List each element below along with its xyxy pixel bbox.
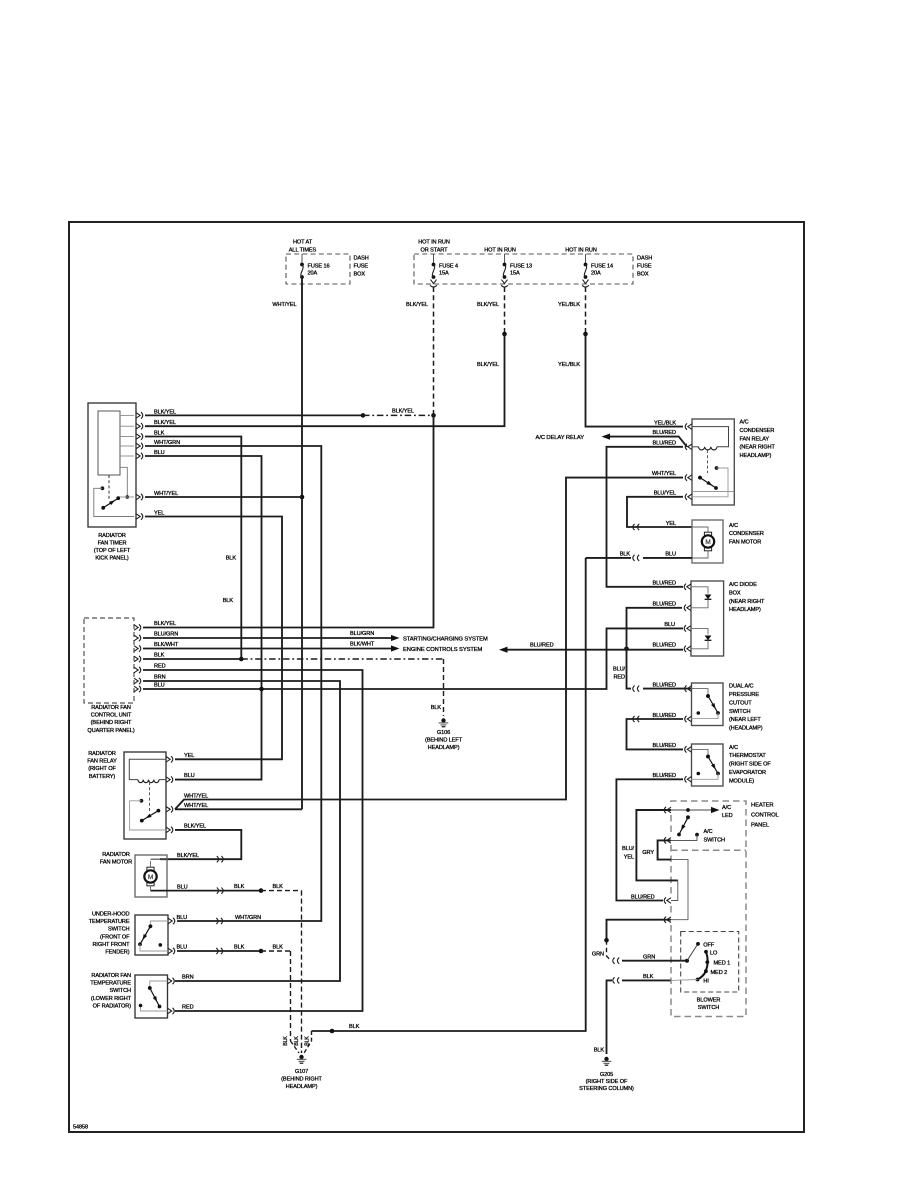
svg-text:BLU/GRN: BLU/GRN bbox=[154, 632, 178, 638]
svg-text:GRN: GRN bbox=[592, 952, 604, 958]
svg-text:BLU: BLU bbox=[184, 773, 195, 779]
svg-text:KICK PANEL): KICK PANEL) bbox=[95, 556, 129, 562]
A/C relay coil bbox=[692, 446, 699, 448]
svg-text:BLK: BLK bbox=[349, 1024, 360, 1030]
svg-text:FUSE 13: FUSE 13 bbox=[510, 264, 532, 270]
svg-text:MED 2: MED 2 bbox=[711, 970, 728, 976]
svg-text:FUSE: FUSE bbox=[637, 264, 652, 270]
svg-text:RADIATOR: RADIATOR bbox=[98, 533, 126, 539]
svg-text:STEERING COLUMN): STEERING COLUMN) bbox=[579, 1086, 634, 1092]
svg-text:BLK/YEL: BLK/YEL bbox=[477, 362, 499, 368]
svg-text:TEMPERATURE: TEMPERATURE bbox=[89, 919, 130, 925]
svg-text:WHT/YEL: WHT/YEL bbox=[272, 302, 296, 308]
fuse 16 20A bbox=[301, 254, 303, 263]
svg-text:G106: G106 bbox=[437, 730, 450, 736]
svg-text:BLU/RED: BLU/RED bbox=[652, 643, 676, 649]
svg-text:15A: 15A bbox=[510, 271, 520, 277]
svg-text:PRESSURE: PRESSURE bbox=[729, 692, 759, 698]
svg-text:(FRONT OF: (FRONT OF bbox=[100, 934, 130, 940]
radiator fan relay box bbox=[124, 752, 166, 839]
wire BLK/BLU motor ground lead bbox=[586, 557, 631, 559]
dash fuse box 1 (fuse 16) bbox=[286, 254, 350, 284]
svg-text:20A: 20A bbox=[591, 271, 601, 277]
svg-text:BLU/RED: BLU/RED bbox=[652, 430, 676, 436]
timer internal switch bbox=[108, 475, 110, 500]
svg-text:(RIGHT OF: (RIGHT OF bbox=[88, 766, 116, 772]
svg-text:BLU: BLU bbox=[177, 884, 188, 890]
control unit pins bbox=[134, 625, 138, 631]
svg-text:M: M bbox=[148, 874, 153, 881]
wire WHT/YEL from fuse 16 down to radiator fan relay bbox=[301, 277, 303, 809]
svg-text:FAN RELAY: FAN RELAY bbox=[740, 436, 770, 442]
dual A/C pressure cutout switch box bbox=[692, 683, 724, 726]
svg-text:(BEHIND LEFT: (BEHIND LEFT bbox=[425, 738, 463, 744]
svg-text:(BEHIND RIGHT: (BEHIND RIGHT bbox=[281, 1077, 322, 1083]
svg-text:FAN MOTOR: FAN MOTOR bbox=[100, 860, 132, 866]
svg-text:RADIATOR: RADIATOR bbox=[102, 852, 130, 858]
A/C switch bbox=[686, 815, 690, 819]
svg-text:SWITCH: SWITCH bbox=[110, 988, 132, 994]
A/C LED bbox=[671, 809, 711, 811]
fuse 13 15A bbox=[504, 254, 506, 263]
svg-text:HOT IN RUN: HOT IN RUN bbox=[565, 248, 597, 254]
svg-text:BLU/RED: BLU/RED bbox=[652, 602, 676, 608]
svg-text:BLK/YEL: BLK/YEL bbox=[392, 408, 414, 414]
svg-text:RADIATOR: RADIATOR bbox=[88, 751, 116, 757]
svg-text:HEADLAMP): HEADLAMP) bbox=[729, 607, 761, 613]
wire BLK/WHT to engine controls system bbox=[143, 648, 391, 650]
svg-text:BLU/RED: BLU/RED bbox=[652, 682, 676, 688]
svg-text:BOX: BOX bbox=[729, 590, 741, 596]
wire BLK row with ground G106 bbox=[143, 658, 241, 660]
wire WHT/YEL row2 up to fuse16 column bbox=[175, 808, 302, 810]
wire BRN row bbox=[143, 681, 340, 981]
pressure switch internals bbox=[692, 689, 709, 696]
svg-text:BLK: BLK bbox=[594, 1047, 605, 1053]
svg-text:M: M bbox=[705, 539, 710, 546]
timer pins bbox=[136, 413, 140, 419]
svg-text:BLK: BLK bbox=[273, 884, 284, 890]
svg-text:MODULE): MODULE) bbox=[729, 778, 754, 784]
wire timer WHT/YEL row 6 bbox=[145, 496, 302, 498]
svg-text:BLK: BLK bbox=[273, 945, 284, 951]
wire timer BLU row 5 bbox=[145, 456, 262, 780]
wire BLU/RED coil to diode box bbox=[607, 447, 684, 587]
svg-text:WHT/YEL: WHT/YEL bbox=[184, 803, 208, 809]
splice dot on WHT/YEL at timer row bbox=[300, 495, 305, 500]
svg-text:(NEAR LEFT: (NEAR LEFT bbox=[729, 717, 761, 723]
A/C delay relay arrow bbox=[610, 437, 687, 447]
svg-text:BLK/YEL: BLK/YEL bbox=[477, 302, 499, 308]
wire BLU/YEL from A/C LED bbox=[636, 810, 677, 880]
svg-text:ENGINE CONTROLS SYSTEM: ENGINE CONTROLS SYSTEM bbox=[403, 647, 483, 653]
svg-text:A/C DELAY RELAY: A/C DELAY RELAY bbox=[536, 435, 585, 441]
svg-text:DASH: DASH bbox=[354, 256, 369, 262]
ground G107 dashed drops bbox=[291, 1041, 300, 1053]
motor BLK/YEL lead bbox=[151, 858, 168, 860]
fuse 14 20A bbox=[585, 254, 587, 263]
A/C thermostat box bbox=[692, 744, 724, 786]
svg-text:BLOWER: BLOWER bbox=[697, 997, 721, 1003]
svg-text:FENDER): FENDER) bbox=[105, 950, 129, 956]
radiator fan control unit box bbox=[84, 618, 134, 703]
svg-text:BLK: BLK bbox=[234, 945, 245, 951]
svg-text:RED: RED bbox=[613, 675, 625, 681]
wire BLU/BLK row to G107 bbox=[177, 950, 261, 952]
svg-text:UNDER-HOOD: UNDER-HOOD bbox=[92, 912, 130, 918]
svg-text:BLK/YEL: BLK/YEL bbox=[154, 420, 176, 426]
svg-text:CONDENSER: CONDENSER bbox=[740, 428, 775, 434]
svg-text:WHT/YEL: WHT/YEL bbox=[652, 471, 676, 477]
svg-text:(RIGHT SIDE OF: (RIGHT SIDE OF bbox=[586, 1079, 628, 1085]
blower switch box bbox=[681, 932, 739, 993]
svg-text:BLU: BLU bbox=[177, 915, 188, 921]
svg-text:LO: LO bbox=[710, 950, 718, 956]
svg-text:BLK: BLK bbox=[431, 705, 442, 711]
svg-text:BLK/WHT: BLK/WHT bbox=[154, 642, 179, 648]
motor BLU/BLK lead to ground run bbox=[151, 890, 262, 892]
svg-text:HEADLAMP): HEADLAMP) bbox=[286, 1084, 318, 1090]
wire BLU/GRN to starting/charging system bbox=[143, 637, 391, 639]
svg-text:FAN RELAY: FAN RELAY bbox=[87, 759, 117, 765]
wire YEL/BLK from fuse 14 bbox=[585, 287, 587, 334]
svg-text:FUSE 16: FUSE 16 bbox=[308, 264, 330, 270]
ground G205 bbox=[604, 1057, 608, 1061]
svg-text:(LOWER RIGHT: (LOWER RIGHT bbox=[91, 996, 132, 1002]
svg-text:(NEAR RIGHT: (NEAR RIGHT bbox=[729, 599, 765, 605]
wire timer WHT/GRN row 4 bbox=[145, 446, 321, 921]
svg-text:SWITCH: SWITCH bbox=[108, 927, 130, 933]
thermostat internals bbox=[692, 749, 709, 756]
svg-text:FUSE: FUSE bbox=[354, 264, 369, 270]
diode 1 bbox=[691, 587, 708, 594]
svg-text:BLU/RED: BLU/RED bbox=[652, 713, 676, 719]
svg-text:A/C: A/C bbox=[729, 745, 738, 751]
svg-text:TEMPERATURE: TEMPERATURE bbox=[90, 981, 131, 987]
svg-text:BLK/WHT: BLK/WHT bbox=[350, 642, 375, 648]
svg-text:BRN: BRN bbox=[182, 975, 194, 981]
relay coil bbox=[129, 759, 166, 779]
dash fuse box 2 (fuses 4, 13, 14) bbox=[414, 254, 633, 284]
svg-text:BLK: BLK bbox=[643, 974, 654, 980]
radiator fan motor box bbox=[135, 855, 167, 897]
radiator fan timer box bbox=[88, 403, 136, 527]
blower switch contacts bbox=[685, 959, 689, 963]
wire BLK/YEL from fuse 4 (dashed) bbox=[433, 287, 435, 415]
svg-text:CONDENSER: CONDENSER bbox=[729, 531, 764, 537]
svg-text:15A: 15A bbox=[439, 271, 449, 277]
svg-text:YEL/BLK: YEL/BLK bbox=[654, 420, 676, 426]
svg-text:EVAPORATOR: EVAPORATOR bbox=[729, 770, 766, 776]
svg-text:BLK/YEL: BLK/YEL bbox=[177, 853, 199, 859]
svg-text:QUARTER PANEL): QUARTER PANEL) bbox=[87, 728, 134, 734]
svg-text:20A: 20A bbox=[308, 271, 318, 277]
svg-text:GRN: GRN bbox=[643, 954, 655, 960]
svg-text:BATTERY): BATTERY) bbox=[89, 774, 116, 780]
svg-text:BLU/YEL: BLU/YEL bbox=[654, 491, 676, 497]
wire BLK blower to ground G205 bbox=[622, 979, 671, 981]
svg-text:HOT IN RUN: HOT IN RUN bbox=[418, 240, 450, 246]
svg-text:ALL TIMES: ALL TIMES bbox=[289, 248, 317, 254]
svg-text:54858: 54858 bbox=[73, 1125, 88, 1131]
wire WHT/YEL row1 to A/C condenser fan relay bbox=[175, 478, 683, 810]
wire BLK/YEL from fuse 13 bbox=[504, 287, 506, 334]
svg-text:G205: G205 bbox=[600, 1072, 613, 1078]
wire BLU/YEL relay to A/C condenser fan motor bbox=[627, 497, 683, 527]
svg-text:HI: HI bbox=[703, 978, 709, 984]
border frame bbox=[69, 222, 804, 1132]
svg-text:BLU/: BLU/ bbox=[622, 846, 635, 852]
svg-text:A/C: A/C bbox=[740, 420, 749, 426]
svg-text:WHT/YEL: WHT/YEL bbox=[184, 793, 208, 799]
svg-text:HEADLAMP): HEADLAMP) bbox=[428, 745, 460, 751]
svg-text:OFF: OFF bbox=[703, 942, 715, 948]
wire BLU/RED diode2 down to pressure switch bbox=[627, 608, 683, 689]
wire timer YEL row 7 bbox=[145, 517, 282, 760]
svg-text:BLU/RED: BLU/RED bbox=[652, 773, 676, 779]
A/C relay pins bbox=[688, 424, 692, 430]
A/C relay switch bbox=[698, 476, 702, 480]
heater panel pins bbox=[667, 807, 671, 813]
svg-text:OR START: OR START bbox=[421, 248, 449, 254]
svg-text:A/C DIODE: A/C DIODE bbox=[729, 582, 757, 588]
svg-text:YEL: YEL bbox=[184, 753, 194, 759]
diode 2 bbox=[691, 628, 708, 634]
ground G107 bbox=[299, 1055, 303, 1059]
A/C condenser fan relay box bbox=[692, 419, 734, 505]
svg-text:BLK: BLK bbox=[223, 598, 234, 604]
temp switch internals bbox=[150, 981, 168, 988]
svg-text:BLU: BLU bbox=[154, 683, 165, 689]
svg-text:OF RADIATOR): OF RADIATOR) bbox=[93, 1003, 132, 1009]
svg-text:CONTROL UNIT: CONTROL UNIT bbox=[91, 713, 132, 719]
svg-text:YEL: YEL bbox=[624, 855, 634, 861]
svg-text:(RIGHT SIDE OF: (RIGHT SIDE OF bbox=[729, 762, 771, 768]
diode box pins bbox=[687, 584, 691, 590]
svg-text:(TOP OF LEFT: (TOP OF LEFT bbox=[94, 548, 131, 554]
svg-text:PANEL: PANEL bbox=[751, 823, 770, 829]
relay switch bbox=[140, 799, 144, 803]
svg-text:MED 1: MED 1 bbox=[714, 961, 731, 967]
svg-text:FUSE 14: FUSE 14 bbox=[591, 264, 613, 270]
svg-text:DUAL A/C: DUAL A/C bbox=[729, 684, 754, 690]
wire RED row bbox=[143, 670, 363, 1011]
svg-text:LED: LED bbox=[722, 813, 733, 819]
svg-text:WHT/GRN: WHT/GRN bbox=[235, 915, 261, 921]
wire BLU/RED to engine controls (left arrow) bbox=[508, 649, 684, 651]
svg-text:FAN MOTOR: FAN MOTOR bbox=[729, 540, 761, 546]
svg-text:BLU/GRN: BLU/GRN bbox=[350, 631, 374, 637]
svg-text:YEL/BLK: YEL/BLK bbox=[558, 302, 580, 308]
svg-text:SWITCH: SWITCH bbox=[704, 837, 726, 843]
svg-text:(HEADLAMP): (HEADLAMP) bbox=[729, 726, 763, 732]
svg-text:HOT AT: HOT AT bbox=[293, 240, 313, 246]
wire GRY bbox=[658, 840, 671, 859]
svg-text:RADIATOR FAN: RADIATOR FAN bbox=[91, 973, 131, 979]
svg-text:YEL: YEL bbox=[666, 521, 676, 527]
junction dot fuse4 column bbox=[431, 413, 436, 418]
svg-text:SWITCH: SWITCH bbox=[729, 709, 751, 715]
svg-text:BLU/RED: BLU/RED bbox=[652, 441, 676, 447]
svg-text:RADIATOR FAN: RADIATOR FAN bbox=[91, 705, 131, 711]
svg-text:DASH: DASH bbox=[637, 256, 652, 262]
svg-text:BLK/YEL: BLK/YEL bbox=[184, 824, 206, 830]
svg-text:A/C: A/C bbox=[729, 523, 738, 529]
svg-text:BOX: BOX bbox=[637, 272, 649, 278]
svg-text:BLU: BLU bbox=[665, 552, 676, 558]
svg-text:FUSE 4: FUSE 4 bbox=[439, 264, 458, 270]
svg-text:YEL/BLK: YEL/BLK bbox=[558, 362, 580, 368]
svg-text:BLK: BLK bbox=[283, 1036, 289, 1046]
ground G106 bbox=[441, 718, 445, 722]
wire GRN heater to blower splice bbox=[607, 920, 672, 941]
wire BLU/WHT-GRN row bbox=[177, 920, 224, 922]
svg-text:RED: RED bbox=[154, 664, 166, 670]
wire timer BLK row 3 bbox=[145, 437, 241, 660]
wire BLK ground bus to A/C condenser fan motor bbox=[312, 558, 586, 1031]
wire BLK/YEL fuse4 column solid down to control unit row bbox=[143, 415, 434, 627]
svg-text:BLK: BLK bbox=[305, 1036, 311, 1046]
svg-text:A/C: A/C bbox=[722, 805, 731, 811]
svg-text:BLK: BLK bbox=[154, 653, 165, 659]
svg-text:BLU/RED: BLU/RED bbox=[530, 643, 554, 649]
svg-text:HEADLAMP): HEADLAMP) bbox=[740, 453, 772, 459]
under-hood temperature switch box bbox=[135, 915, 168, 955]
relay pins bbox=[166, 757, 170, 763]
wire BLK/YEL relay to motor bbox=[160, 830, 241, 859]
svg-text:BLK/YEL: BLK/YEL bbox=[154, 621, 176, 627]
svg-text:CUTOUT: CUTOUT bbox=[729, 700, 752, 706]
A/C condenser fan motor box bbox=[692, 520, 723, 563]
wire timer BLK/YEL row 1 to splice bbox=[145, 414, 363, 416]
fuse box output connectors bbox=[431, 280, 437, 284]
svg-text:BLK: BLK bbox=[620, 552, 631, 558]
svg-text:CONTROL: CONTROL bbox=[751, 813, 780, 819]
wire BLU/RED pressure to thermostat bbox=[627, 719, 684, 749]
svg-text:BOX: BOX bbox=[354, 272, 366, 278]
under-hood switch internals bbox=[150, 921, 168, 926]
svg-text:BLU: BLU bbox=[664, 622, 675, 628]
heater control panel box bbox=[670, 815, 672, 835]
wire BLU row to A/C diode box bbox=[143, 628, 683, 689]
svg-text:BLK/YEL: BLK/YEL bbox=[406, 302, 428, 308]
svg-text:THERMOSTAT: THERMOSTAT bbox=[729, 753, 766, 759]
svg-text:FAN TIMER: FAN TIMER bbox=[98, 541, 127, 547]
timer internal stubs bbox=[120, 414, 134, 416]
svg-text:HEATER: HEATER bbox=[751, 803, 773, 809]
svg-text:SWITCH: SWITCH bbox=[698, 1005, 720, 1011]
wire BLU/RED thermostat to heater control panel bbox=[616, 779, 683, 900]
radiator fan temperature switch box bbox=[135, 975, 168, 1018]
svg-text:BLU/: BLU/ bbox=[613, 666, 626, 672]
svg-text:BLU/RED: BLU/RED bbox=[652, 581, 676, 587]
svg-text:(NEAR RIGHT: (NEAR RIGHT bbox=[740, 445, 776, 451]
svg-text:BRN: BRN bbox=[154, 675, 166, 681]
svg-text:GRY: GRY bbox=[642, 850, 654, 856]
svg-text:A/C: A/C bbox=[704, 829, 713, 835]
svg-text:(BEHIND RIGHT: (BEHIND RIGHT bbox=[91, 720, 132, 726]
A/C diode box bbox=[691, 581, 724, 656]
svg-text:BLK: BLK bbox=[234, 884, 245, 890]
svg-text:G107: G107 bbox=[295, 1069, 308, 1075]
svg-text:HOT IN RUN: HOT IN RUN bbox=[484, 248, 516, 254]
svg-text:BLU/RED: BLU/RED bbox=[652, 743, 676, 749]
fuse 4 15A bbox=[433, 254, 435, 263]
svg-text:BLU/RED: BLU/RED bbox=[631, 894, 655, 900]
svg-text:RED: RED bbox=[182, 1005, 194, 1011]
svg-text:STARTING/CHARGING SYSTEM: STARTING/CHARGING SYSTEM bbox=[403, 637, 488, 643]
svg-text:BLU: BLU bbox=[177, 945, 188, 951]
svg-text:RIGHT FRONT: RIGHT FRONT bbox=[92, 942, 130, 948]
svg-text:BLK: BLK bbox=[226, 556, 237, 562]
svg-text:BLK: BLK bbox=[294, 1036, 300, 1046]
